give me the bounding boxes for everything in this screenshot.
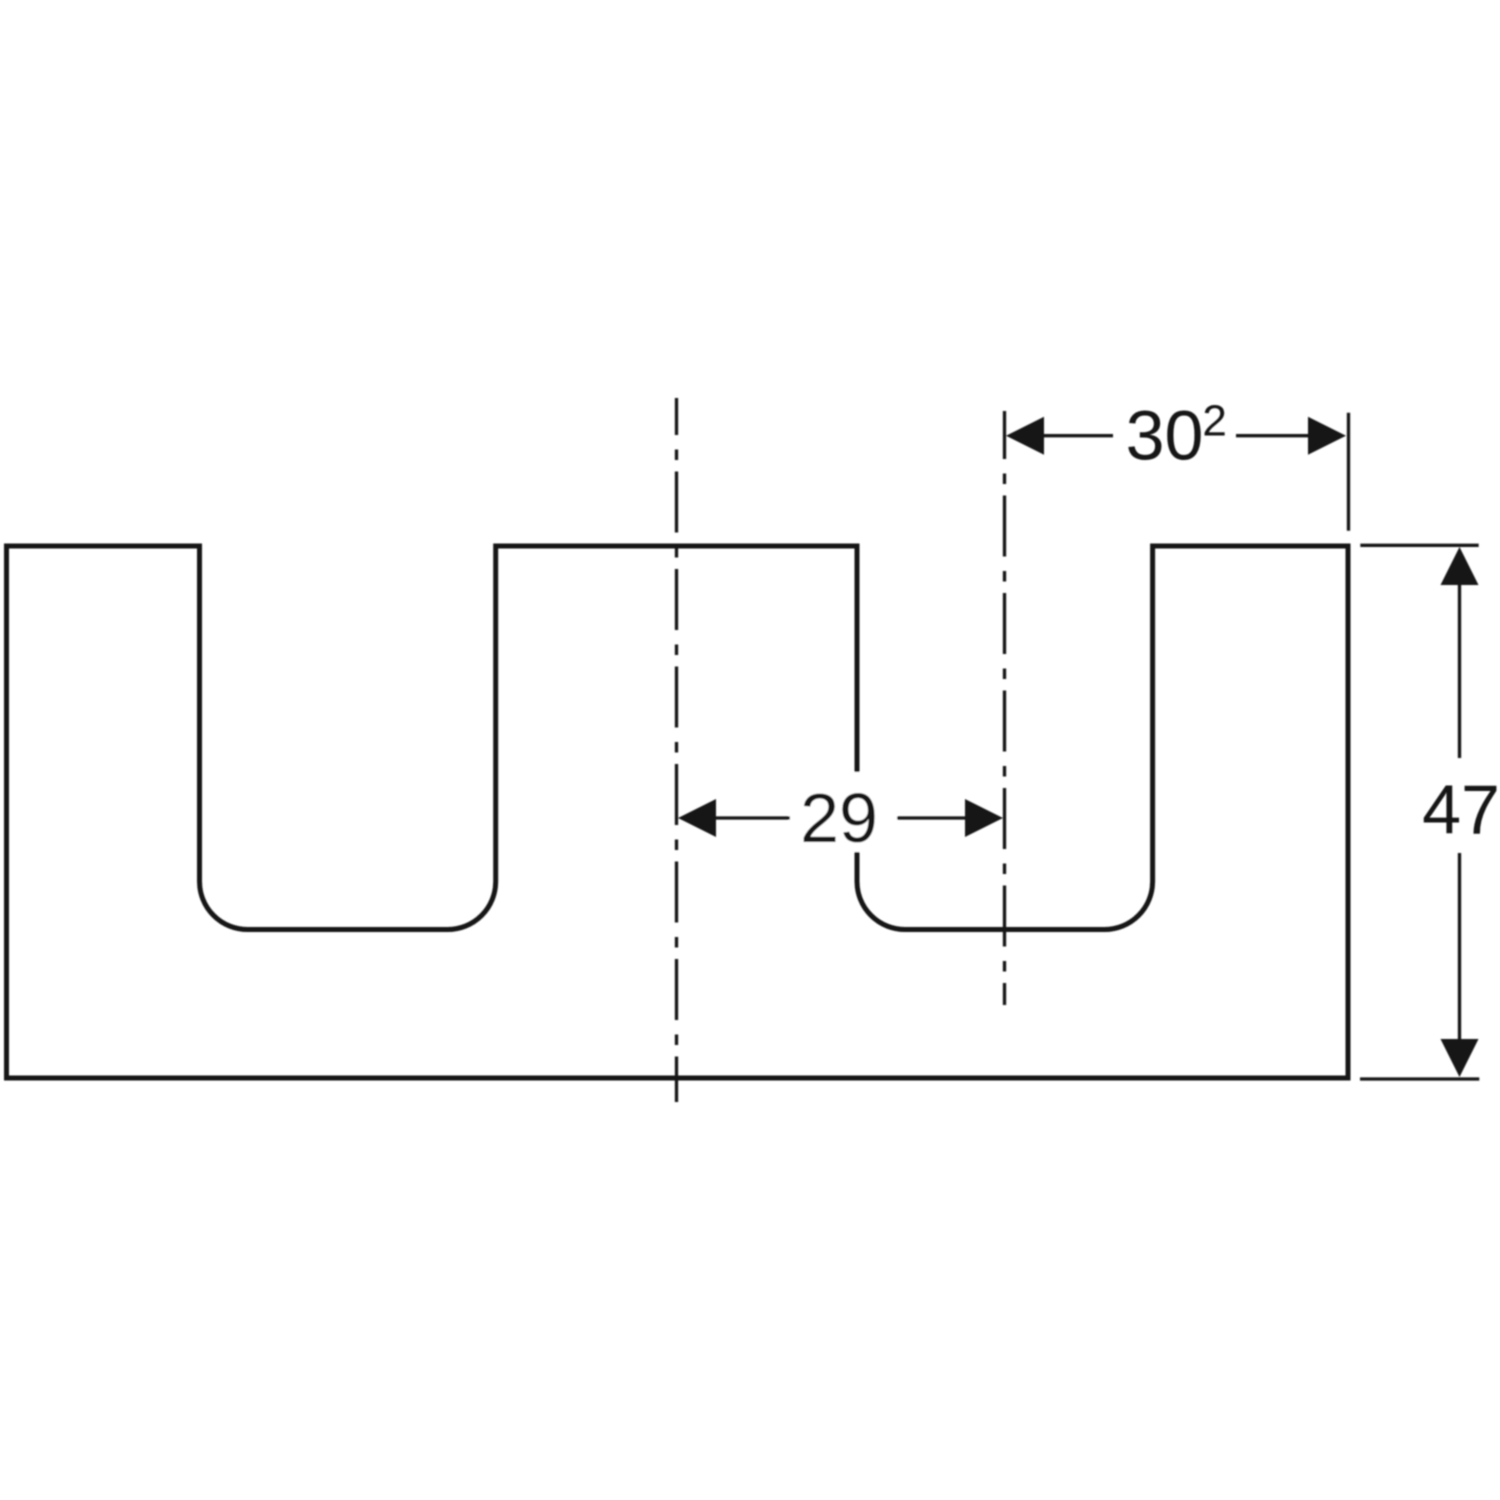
dimension 29 : right arrow (965, 799, 1003, 837)
dimension 30^2 : right arrow (1308, 417, 1346, 455)
dimension 47 : bottom extension line (1360, 1077, 1479, 1080)
svg-text:30: 30 (1126, 397, 1204, 475)
dimension 29 : left arrow (678, 799, 716, 837)
dimension 47 : bottom arrow (1441, 1039, 1479, 1077)
countertop outline with two U-cutouts (7, 546, 1349, 1078)
svg-text:2: 2 (1202, 397, 1226, 446)
dimension 30^2 : left arrow (1006, 417, 1044, 455)
dimension 47 : line bottom segment (1458, 853, 1461, 1039)
dimension 30^2 : line right segment (1236, 434, 1308, 437)
svg-text:47: 47 (1422, 771, 1500, 849)
dimension 30^2 : extension line at right edge (1347, 413, 1350, 531)
svg-text:29: 29 (800, 779, 878, 857)
dimension 30^2 : line left segment (1044, 434, 1113, 437)
centerline B (right cutout axis, dash-dot) (1003, 411, 1006, 1005)
dimension 29 : line right segment (897, 816, 965, 819)
dimension 47 : top extension line (1360, 544, 1478, 547)
centerline A (middle segment axis, dash-dot) (675, 398, 678, 1102)
dimension 29 : line left segment (716, 816, 790, 819)
dimension 29 : white halo over cutout wall (789, 772, 897, 852)
dimension 47 : line top segment (1458, 585, 1461, 758)
dimension 47 : top arrow (1441, 547, 1479, 585)
